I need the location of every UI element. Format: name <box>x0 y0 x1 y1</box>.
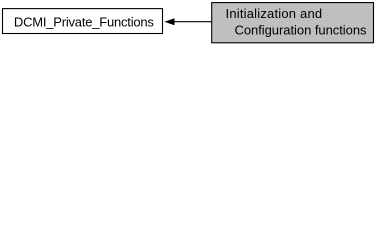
background <box>0 0 380 52</box>
svg-text:Initialization and: Initialization and <box>226 6 323 21</box>
node Initialization and Configuration functions box <box>212 3 374 43</box>
arrowhead <box>164 18 174 25</box>
wire edge line <box>174 21 212 23</box>
node DCMI_Private_Functions box <box>3 9 163 34</box>
svg-text:Configuration functions: Configuration functions <box>235 23 368 38</box>
svg-text:DCMI_Private_Functions: DCMI_Private_Functions <box>14 14 155 29</box>
module dependency graph <box>0 0 380 52</box>
